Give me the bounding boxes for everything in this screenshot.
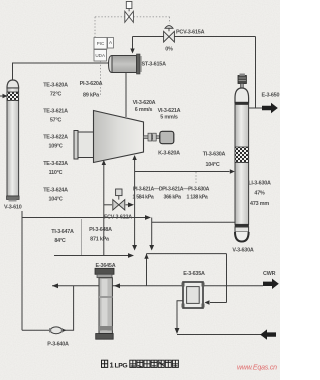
svg-text:UDA: UDA [95, 53, 106, 58]
svg-text:ST-3-615A: ST-3-615A [142, 62, 167, 68]
svg-text:P-3-640A: P-3-640A [47, 342, 69, 348]
svg-text:1 584 kPa: 1 584 kPa [133, 195, 154, 201]
svg-text:104°C: 104°C [48, 197, 62, 203]
svg-text:PCV-3-615A: PCV-3-615A [176, 30, 205, 36]
svg-text:E-3-650: E-3-650 [262, 93, 280, 99]
svg-text:V-3-630A: V-3-630A [232, 248, 253, 254]
svg-text:109°C: 109°C [48, 144, 62, 150]
svg-text:5 mm/s: 5 mm/s [160, 114, 178, 120]
svg-text:TE-3-620A: TE-3-620A [43, 82, 68, 88]
svg-text:TE-3-624A: TE-3-624A [43, 187, 68, 193]
svg-text:1 138 kPa: 1 138 kPa [187, 195, 208, 201]
svg-text:VI-3-620A: VI-3-620A [133, 100, 156, 106]
svg-text:K-3-620A: K-3-620A [158, 151, 180, 157]
svg-text:VI-3-621A: VI-3-621A [158, 108, 181, 114]
svg-text:LI-3-630A: LI-3-630A [248, 181, 271, 187]
svg-text:TI-3-630A: TI-3-630A [203, 152, 226, 158]
svg-text:1: 1 [110, 361, 114, 370]
svg-text:E-3645A: E-3645A [96, 263, 116, 269]
svg-text:84°C: 84°C [54, 238, 66, 244]
svg-text:TE-3-621A: TE-3-621A [43, 108, 68, 114]
svg-text:104°C: 104°C [205, 162, 219, 168]
svg-text:V-3-610: V-3-610 [4, 205, 22, 211]
svg-text:57°C: 57°C [50, 118, 62, 124]
svg-text:PI-3-620A: PI-3-620A [80, 81, 103, 87]
svg-text:47%: 47% [254, 190, 265, 196]
svg-text:E-3-635A: E-3-635A [183, 271, 205, 277]
svg-text:TE-3-622A: TE-3-622A [43, 134, 68, 140]
svg-text:www.Eqas.cn: www.Eqas.cn [237, 365, 277, 372]
svg-text:PI-3-648A: PI-3-648A [89, 227, 112, 233]
svg-text:PI-3-621A—DPI-3-621A—PI-3-630A: PI-3-621A—DPI-3-621A—PI-3-630A [133, 187, 210, 193]
svg-text:473 mm: 473 mm [250, 201, 269, 207]
svg-text:0%: 0% [165, 47, 173, 53]
svg-text:FCV-3-622A: FCV-3-622A [104, 214, 132, 220]
svg-text:TI-3-647A: TI-3-647A [51, 229, 74, 235]
svg-text:6 mm/s: 6 mm/s [135, 107, 153, 113]
svg-text:871 kPa: 871 kPa [90, 237, 110, 243]
svg-text:PIC: PIC [97, 41, 105, 46]
svg-text:72°C: 72°C [50, 92, 62, 98]
svg-text:LPG: LPG [115, 363, 128, 370]
svg-text:TE-3-623A: TE-3-623A [43, 161, 68, 167]
svg-text:110°C: 110°C [49, 170, 63, 176]
svg-text:366 kPa: 366 kPa [164, 195, 182, 201]
svg-text:CWR: CWR [263, 271, 276, 277]
svg-text:89 kPa: 89 kPa [83, 93, 100, 99]
